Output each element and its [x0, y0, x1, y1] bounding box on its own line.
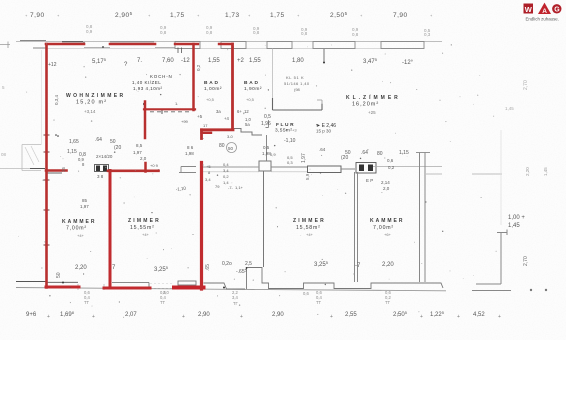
- svg-text:+25: +25: [368, 110, 376, 115]
- svg-text:(20: (20: [114, 145, 121, 151]
- svg-text:0,8: 0,8: [160, 30, 167, 35]
- svg-text:ΤΤ: ΤΤ: [316, 300, 322, 305]
- svg-text:KL.ZIMMER: KL.ZIMMER: [346, 95, 401, 101]
- svg-text:+0 9: +0 9: [150, 163, 159, 168]
- svg-text:KAMMER: KAMMER: [62, 219, 97, 225]
- svg-text:1,1+: 1,1+: [235, 185, 244, 190]
- svg-text:-7: -7: [355, 263, 361, 269]
- svg-text:+5: +5: [197, 114, 203, 119]
- svg-text:-7-: -7-: [228, 185, 234, 190]
- svg-text:+0,5: +0,5: [206, 97, 215, 102]
- svg-text:0,2: 0,2: [196, 64, 201, 71]
- svg-text:0,3: 0,3: [287, 160, 293, 165]
- svg-text:0,8: 0,8: [206, 30, 213, 35]
- svg-text:0,3: 0,3: [424, 32, 431, 37]
- svg-text:5a: 5a: [245, 122, 250, 127]
- svg-text:KL 51 K: KL 51 K: [286, 75, 304, 80]
- svg-text:8,5: 8,5: [136, 143, 143, 148]
- svg-text:+0,5: +0,5: [246, 97, 255, 102]
- svg-text:1,40 KI/ZEL: 1,40 KI/ZEL: [132, 80, 161, 85]
- svg-text:W: W: [525, 5, 533, 14]
- svg-text:7,00m²: 7,00m²: [66, 226, 87, 232]
- svg-text:2×14/20: 2×14/20: [96, 154, 113, 159]
- svg-text:.65: .65: [205, 264, 211, 271]
- svg-text:17: 17: [203, 123, 208, 128]
- svg-text:1,45: 1,45: [508, 223, 520, 229]
- svg-text:2,20: 2,20: [525, 167, 530, 176]
- svg-text:2,0: 2,0: [140, 156, 147, 161]
- svg-text:1,80: 1,80: [292, 58, 304, 64]
- svg-text:1,75: 1,75: [170, 12, 185, 19]
- svg-text:+: +: [498, 314, 501, 320]
- svg-text:1,00 +: 1,00 +: [508, 215, 525, 221]
- svg-text:+4+: +4+: [77, 233, 85, 238]
- svg-text:3,4: 3,4: [223, 168, 229, 173]
- svg-text:-12°: -12°: [402, 60, 414, 66]
- svg-text:80: 80: [377, 151, 383, 157]
- svg-text:1,98: 1,98: [185, 151, 194, 156]
- svg-text:51/146 1,40: 51/146 1,40: [284, 81, 310, 86]
- svg-text:7,60: 7,60: [162, 58, 174, 64]
- svg-text:ΤΤ: ΤΤ: [84, 300, 90, 305]
- svg-text:0,8: 0,8: [301, 31, 308, 36]
- svg-text:2,0: 2,0: [383, 186, 390, 191]
- svg-text:-12: -12: [181, 58, 190, 64]
- svg-text:1,97: 1,97: [80, 204, 89, 209]
- svg-text:0,2: 0,2: [223, 174, 229, 179]
- svg-text:80: 80: [219, 143, 225, 149]
- svg-text:1,97: 1,97: [133, 150, 142, 155]
- svg-text:1,90m²: 1,90m²: [244, 86, 262, 92]
- svg-text:KAMMER: KAMMER: [370, 218, 405, 224]
- svg-text:BAD: BAD: [244, 80, 260, 86]
- svg-text:0,4: 0,4: [223, 162, 229, 167]
- svg-text:+: +: [420, 314, 423, 320]
- svg-text:2,5: 2,5: [245, 261, 252, 267]
- svg-text:08: 08: [1, 152, 7, 157]
- svg-text:+3,14: +3,14: [84, 109, 96, 114]
- svg-text:1,00m²: 1,00m²: [204, 86, 222, 92]
- svg-text:25: 25: [61, 166, 66, 172]
- svg-text:7,00m²: 7,00m²: [373, 225, 394, 231]
- svg-text:+: +: [240, 314, 243, 320]
- svg-text:8 6: 8 6: [187, 145, 194, 150]
- svg-text:KOCH-N: KOCH-N: [150, 74, 173, 79]
- svg-text:15,20 m²: 15,20 m²: [76, 100, 107, 106]
- svg-text:7,90: 7,90: [30, 12, 45, 19]
- svg-text:(20: (20: [341, 155, 348, 161]
- svg-text:WOHNZIMMER: WOHNZIMMER: [66, 93, 126, 99]
- svg-text:1,45: 1,45: [505, 106, 514, 111]
- svg-text:3 8: 3 8: [97, 174, 104, 179]
- svg-text:0,9: 0,9: [86, 29, 93, 34]
- svg-text:ZIMMER: ZIMMER: [128, 218, 161, 224]
- svg-text:ΤΤ: ΤΤ: [385, 300, 391, 305]
- svg-text:3,4: 3,4: [232, 295, 238, 300]
- svg-text:15,55m²: 15,55m²: [130, 225, 155, 231]
- svg-text:1,15: 1,15: [399, 150, 409, 156]
- svg-text:+6+: +6+: [384, 232, 392, 237]
- svg-text:5,9: 5,9: [305, 173, 310, 180]
- svg-text:2,70: 2,70: [523, 256, 529, 266]
- svg-text:+4+: +4+: [306, 232, 314, 237]
- svg-text:1,96: 1,96: [261, 121, 271, 127]
- svg-text:Endlich zuhause.: Endlich zuhause.: [526, 17, 559, 22]
- svg-text:0,5: 0,5: [264, 114, 271, 120]
- svg-text:0,2: 0,2: [388, 165, 395, 170]
- svg-text:0,6: 0,6: [303, 291, 309, 296]
- svg-text:3a: 3a: [216, 109, 221, 114]
- svg-text:(98: (98: [294, 87, 301, 92]
- svg-text:G: G: [554, 7, 560, 14]
- svg-text:+: +: [182, 314, 185, 320]
- svg-text:.64: .64: [319, 147, 326, 152]
- svg-text:0,6: 0,6: [387, 158, 394, 163]
- svg-text:4,52: 4,52: [473, 312, 485, 318]
- svg-text:2,55: 2,55: [345, 312, 357, 318]
- svg-text:ΤΓ: ΤΓ: [233, 301, 239, 306]
- svg-text:2,70: 2,70: [523, 80, 529, 90]
- svg-text:7.: 7.: [137, 58, 142, 64]
- svg-text:9+6: 9+6: [26, 312, 37, 318]
- svg-text:15,58m²: 15,58m²: [296, 225, 321, 231]
- svg-text:16,20m²: 16,20m²: [352, 102, 379, 108]
- svg-text:ΤΤ: ΤΤ: [160, 300, 166, 305]
- svg-text:1,55: 1,55: [208, 58, 220, 64]
- svg-text:50: 50: [228, 146, 234, 151]
- svg-text:+: +: [330, 314, 333, 320]
- svg-text:1.: 1.: [175, 101, 178, 106]
- svg-text:BAD: BAD: [204, 80, 220, 86]
- svg-text:1,75: 1,75: [270, 12, 285, 19]
- svg-text:0,3,4: 0,3,4: [54, 94, 59, 105]
- svg-text:79: 79: [215, 184, 220, 189]
- svg-text:1,93 4,10m²: 1,93 4,10m²: [133, 86, 163, 91]
- svg-text:2,07: 2,07: [125, 312, 137, 318]
- svg-text:1,73: 1,73: [225, 12, 240, 19]
- svg-text:85: 85: [82, 198, 88, 203]
- svg-text:+12: +12: [48, 62, 57, 68]
- svg-text:0,2o: 0,2o: [222, 261, 232, 267]
- svg-text:1,15: 1,15: [67, 149, 77, 155]
- svg-text:ZIMMER: ZIMMER: [293, 218, 326, 224]
- svg-text:2,0: 2,0: [163, 290, 169, 295]
- svg-text:3-0: 3-0: [227, 134, 234, 139]
- svg-text:3,4: 3,4: [205, 177, 211, 182]
- svg-text:.64: .64: [95, 137, 102, 143]
- svg-text:2,14: 2,14: [381, 180, 390, 185]
- svg-text:+4+: +4+: [142, 232, 150, 237]
- svg-text:50: 50: [56, 272, 62, 278]
- svg-text:6+ ,12: 6+ ,12: [237, 109, 249, 114]
- svg-text:+2: +2: [237, 58, 245, 64]
- svg-text:1,45: 1,45: [543, 167, 548, 176]
- svg-text:+: +: [457, 314, 460, 320]
- svg-text:2,20: 2,20: [382, 262, 394, 268]
- svg-text:3,55m²: 3,55m²: [275, 128, 292, 134]
- svg-text:+4: +4: [224, 116, 229, 121]
- svg-text:-1,10: -1,10: [284, 138, 296, 144]
- svg-text:E P: E P: [366, 178, 373, 183]
- svg-text:2,90: 2,90: [272, 312, 284, 318]
- svg-text:1,65: 1,65: [69, 139, 79, 145]
- svg-text:A: A: [542, 8, 547, 15]
- svg-text:1,97: 1,97: [301, 153, 307, 163]
- svg-text:.64: .64: [361, 150, 368, 156]
- svg-text:+99: +99: [181, 119, 189, 124]
- svg-text:1,55: 1,55: [249, 58, 261, 64]
- svg-text:0,8: 0,8: [253, 30, 260, 35]
- svg-text:15 p 30: 15 p 30: [316, 129, 332, 134]
- svg-text:2,90: 2,90: [198, 312, 210, 318]
- svg-text:+: +: [47, 314, 50, 320]
- svg-text:0,8: 0,8: [352, 32, 359, 37]
- svg-text:+5: +5: [206, 164, 211, 169]
- svg-text:0,5: 0,5: [263, 145, 270, 150]
- svg-text:7,90: 7,90: [393, 12, 408, 19]
- svg-text:2,20: 2,20: [75, 265, 87, 271]
- svg-text:0,9: 0,9: [270, 152, 276, 157]
- svg-text:+: +: [92, 314, 95, 320]
- svg-text:+3: +3: [292, 128, 297, 133]
